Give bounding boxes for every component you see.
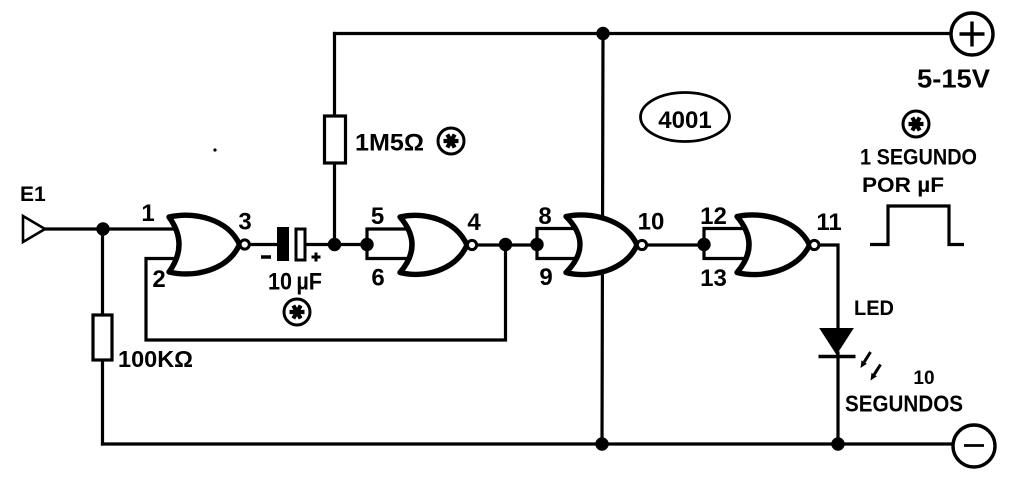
svg-text:13: 13 [700, 265, 727, 292]
svg-text:10: 10 [638, 209, 665, 236]
svg-text:10: 10 [913, 368, 934, 389]
svg-text:1: 1 [141, 200, 154, 227]
svg-text:9: 9 [539, 264, 552, 291]
svg-text:8: 8 [538, 203, 551, 230]
svg-text:6: 6 [371, 265, 384, 292]
svg-text:100KΩ: 100KΩ [118, 346, 193, 372]
svg-text:11: 11 [816, 209, 841, 236]
svg-text:4: 4 [467, 209, 481, 236]
svg-text:POR µF: POR µF [862, 174, 944, 197]
svg-text:LED: LED [854, 297, 894, 320]
svg-text:4001: 4001 [658, 107, 711, 134]
svg-text:SEGUNDOS: SEGUNDOS [845, 391, 963, 417]
svg-text:5: 5 [371, 203, 384, 230]
svg-text:5-15V: 5-15V [917, 64, 991, 94]
svg-text:10 µF: 10 µF [268, 269, 322, 296]
svg-text:2: 2 [152, 266, 165, 293]
svg-text:12: 12 [700, 203, 727, 230]
svg-text:1 SEGUNDO: 1 SEGUNDO [860, 145, 977, 170]
svg-text:1M5Ω: 1M5Ω [355, 130, 424, 157]
svg-text:E1: E1 [20, 183, 46, 206]
svg-text:3: 3 [238, 209, 251, 236]
